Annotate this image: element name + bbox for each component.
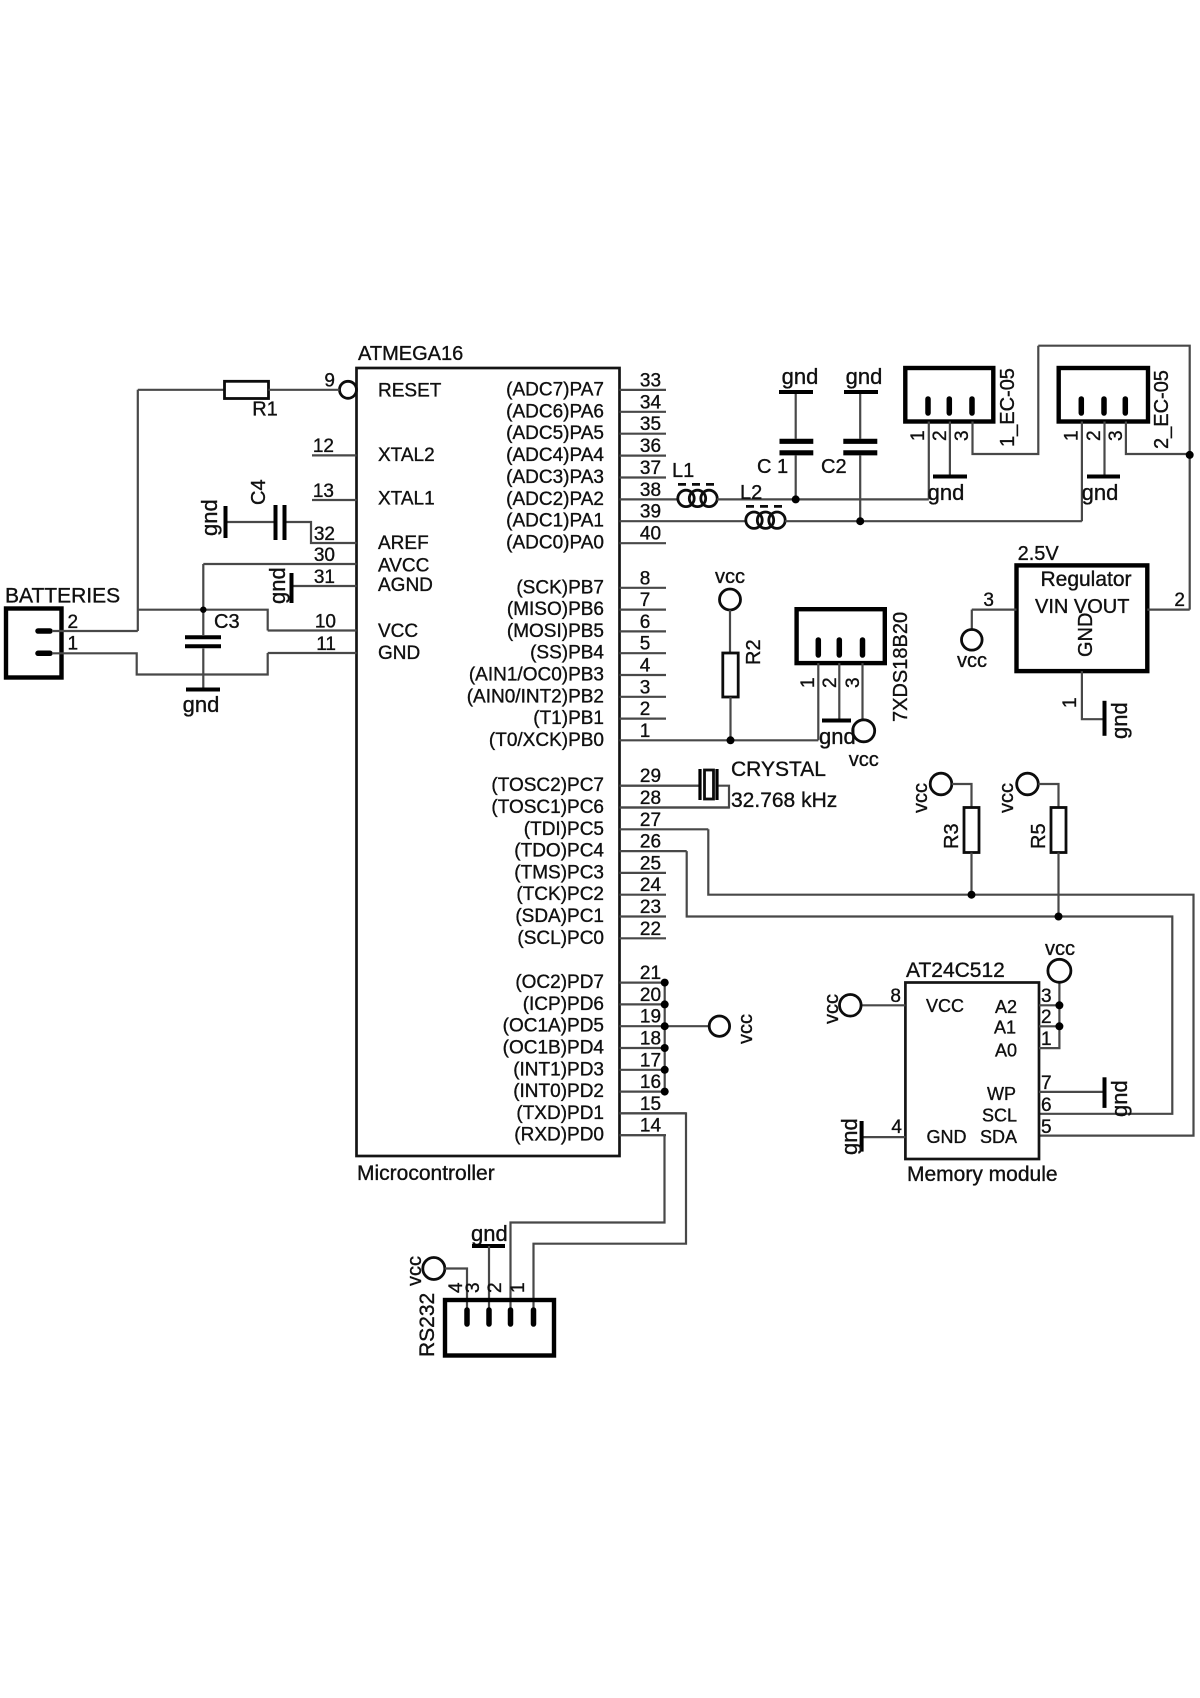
svg-text:23: 23 <box>640 897 661 918</box>
wire R2 bottom lead <box>729 697 731 740</box>
capacitor C2 bottom plate <box>843 450 877 455</box>
inductor L2 core dashes <box>746 505 782 508</box>
ground symbol at RS232 <box>472 1244 505 1248</box>
svg-text:2: 2 <box>68 612 79 633</box>
svg-text:3: 3 <box>1041 986 1052 1007</box>
svg-text:(ADC1)PA1: (ADC1)PA1 <box>506 511 604 532</box>
svg-text:AREF: AREF <box>378 533 429 554</box>
svg-text:(ADC2)PA2: (ADC2)PA2 <box>506 489 604 510</box>
svg-text:27: 27 <box>640 810 661 831</box>
U1 pin 30 stub AVCC wire <box>203 563 356 565</box>
wire vcc to RS232 pin4 <box>445 1269 467 1311</box>
svg-text:gnd: gnd <box>471 1221 508 1246</box>
wire 1_EC-05 pin3 to 2.5V rail <box>973 346 1039 454</box>
wire C1 bottom lead <box>795 455 797 499</box>
svg-text:(INT0)PD2: (INT0)PD2 <box>513 1081 604 1102</box>
svg-text:vcc: vcc <box>1045 938 1075 960</box>
ground symbol below C3 <box>186 688 220 692</box>
svg-text:(SS)PB4: (SS)PB4 <box>530 643 604 664</box>
svg-text:1: 1 <box>68 634 79 655</box>
svg-text:36: 36 <box>640 436 661 457</box>
svg-text:19: 19 <box>640 1007 661 1028</box>
node junction PD bus pin 17 <box>661 1066 669 1074</box>
svg-text:SCL: SCL <box>982 1105 1017 1125</box>
node junction A2 / vcc lead <box>1055 1001 1063 1009</box>
svg-text:GND: GND <box>378 643 420 664</box>
node junction C2 / PA1 net <box>856 517 864 525</box>
2_EC-05 pin slot 2 <box>1101 399 1107 413</box>
svg-text:22: 22 <box>640 919 661 940</box>
svg-text:13: 13 <box>313 481 334 502</box>
svg-text:gnd: gnd <box>819 724 856 749</box>
wire C2 bottom lead <box>859 455 861 521</box>
svg-text:L2: L2 <box>740 482 762 504</box>
svg-text:(MISO)PB6: (MISO)PB6 <box>507 599 604 620</box>
ground symbol at U3 WP <box>1103 1077 1107 1108</box>
wire 1_EC-05 pin2 lead to gnd <box>949 422 951 476</box>
vcc terminal below 7XDS18B20 <box>853 720 875 742</box>
wire vcc to R2 <box>729 610 731 653</box>
svg-text:gnd: gnd <box>197 499 222 536</box>
ground symbol at 7XDS18B20 <box>822 719 851 723</box>
node junction PD bus pin 16 <box>661 1088 669 1096</box>
svg-text:3: 3 <box>952 430 973 441</box>
ground symbol left of C4 <box>224 506 228 538</box>
vcc terminal at PD bus <box>709 1016 729 1036</box>
svg-text:2_EC-05: 2_EC-05 <box>1151 370 1173 449</box>
node junction R5 / PC4 net <box>1055 913 1063 921</box>
svg-text:(ADC6)PA6: (ADC6)PA6 <box>506 401 604 422</box>
node junction R2 / PB0 net <box>727 736 735 744</box>
svg-text:1: 1 <box>908 430 929 441</box>
wire 7XDS18B20 pin3 lead to vcc <box>861 663 863 720</box>
svg-text:vcc: vcc <box>821 994 843 1024</box>
node junction PD bus pin 19 <box>661 1022 669 1030</box>
wire gnd to RS232 pin3 <box>488 1246 490 1310</box>
svg-text:(OC1A)PD5: (OC1A)PD5 <box>503 1016 604 1037</box>
svg-text:33: 33 <box>640 370 661 391</box>
svg-text:AVCC: AVCC <box>378 556 429 577</box>
U1 pin 8 stub <box>620 587 667 589</box>
U1 pin 28 stub <box>620 806 730 808</box>
7XDS18B20 pin slot 2 <box>837 640 843 655</box>
U1 pin 26 stub <box>620 850 687 852</box>
svg-text:(ADC5)PA5: (ADC5)PA5 <box>506 423 604 444</box>
wire gnd to U3 pin 4 <box>863 1136 905 1138</box>
svg-text:vcc: vcc <box>996 783 1018 813</box>
svg-text:2: 2 <box>1174 590 1185 611</box>
wire VCC riser to RESET net <box>137 390 139 631</box>
inductor L1 coil <box>678 490 694 506</box>
svg-text:RS232: RS232 <box>416 1293 439 1357</box>
RS232 pin slot 3 <box>486 1310 492 1324</box>
capacitor C3 top plate <box>185 635 221 639</box>
U1 pin 3 stub <box>620 696 667 698</box>
wire 7XDS18B20 pin2 lead to gnd <box>838 663 840 719</box>
capacitor C1 top plate <box>780 439 814 444</box>
svg-text:gnd: gnd <box>846 364 883 389</box>
svg-text:2: 2 <box>485 1282 506 1293</box>
svg-text:(ADC7)PA7: (ADC7)PA7 <box>506 379 604 400</box>
wire R5 bottom lead <box>1057 853 1059 917</box>
svg-text:XTAL2: XTAL2 <box>378 445 435 466</box>
svg-text:5: 5 <box>640 634 651 655</box>
svg-text:1: 1 <box>640 721 651 742</box>
svg-text:vcc: vcc <box>735 1014 757 1044</box>
svg-text:4: 4 <box>891 1117 902 1138</box>
U1 pin 7 stub <box>620 608 667 610</box>
ground symbol above C1 <box>779 390 813 394</box>
svg-text:C3: C3 <box>214 611 240 633</box>
svg-text:(TDO)PC4: (TDO)PC4 <box>514 841 604 862</box>
wire 2_EC-05 pin2 lead to gnd <box>1103 422 1105 476</box>
1_EC-05 pin slot 3 <box>969 399 975 413</box>
vcc terminal above R2 <box>720 589 741 610</box>
svg-text:2: 2 <box>1041 1007 1052 1028</box>
svg-text:(ADC0)PA0: (ADC0)PA0 <box>506 533 604 554</box>
wire crystal to PC6 <box>620 786 729 808</box>
U1 pin 10 stub <box>268 629 357 631</box>
resistor R3 body <box>964 808 979 853</box>
svg-text:12: 12 <box>313 436 334 457</box>
U1 pin 39 stub <box>620 520 747 522</box>
vcc terminal at R3 <box>930 773 952 795</box>
capacitor C4 left plate <box>274 505 278 540</box>
U1 pin 31 stub <box>292 585 357 587</box>
U1 pin 15 stub <box>620 1112 687 1114</box>
vcc terminal at R5 <box>1017 773 1039 795</box>
ground symbol at AGND <box>290 573 294 603</box>
svg-text:1: 1 <box>1060 697 1081 708</box>
svg-text:(TCK)PC2: (TCK)PC2 <box>516 884 604 905</box>
wire C1 top lead <box>795 394 797 439</box>
svg-text:C 1: C 1 <box>757 456 788 478</box>
J1 pin slot 1 <box>38 651 50 657</box>
wire PD1 TXD to RS232 pin1 <box>534 1113 687 1310</box>
svg-text:(TMS)PC3: (TMS)PC3 <box>514 862 604 883</box>
wire U3 pin 7 WP to gnd <box>1039 1091 1103 1093</box>
svg-text:A2: A2 <box>995 997 1017 1017</box>
svg-text:5: 5 <box>1041 1117 1052 1138</box>
svg-text:R5: R5 <box>1028 823 1050 849</box>
U1 pin 34 stub <box>620 411 667 413</box>
vcc terminal above U3 A-pins <box>1048 959 1071 982</box>
svg-text:RESET: RESET <box>378 381 442 402</box>
wire R1 to RESET circle <box>269 389 340 391</box>
wire vcc to R5 <box>1038 784 1058 808</box>
ground symbol above C2 <box>844 390 878 394</box>
wire PC7 to crystal <box>620 785 699 787</box>
node junction PD bus pin 20 <box>661 1000 669 1008</box>
wire U3 pin 3 stub <box>1039 1004 1059 1006</box>
U1 pin 35 stub <box>620 433 667 435</box>
svg-text:39: 39 <box>640 502 661 523</box>
ground symbol at U3 pin 4 <box>860 1121 864 1152</box>
wire R3 bottom lead <box>970 853 972 895</box>
svg-text:1_EC-05: 1_EC-05 <box>997 368 1019 447</box>
svg-text:14: 14 <box>640 1116 662 1137</box>
svg-text:C2: C2 <box>821 456 847 478</box>
node junction PD bus pin 21 <box>661 979 669 987</box>
wire R1 left lead <box>138 389 225 391</box>
svg-text:(TOSC2)PC7: (TOSC2)PC7 <box>491 775 604 796</box>
svg-text:2: 2 <box>820 677 841 688</box>
svg-text:25: 25 <box>640 853 661 874</box>
svg-text:3: 3 <box>843 677 864 688</box>
svg-text:(SCK)PB7: (SCK)PB7 <box>516 577 604 598</box>
svg-text:Memory module: Memory module <box>907 1163 1058 1186</box>
svg-text:6: 6 <box>640 612 651 633</box>
wire gnd to C4 <box>228 521 274 523</box>
RS232 pin slot 4 <box>464 1310 470 1324</box>
resistor R2 body <box>723 653 738 697</box>
svg-text:1: 1 <box>1041 1029 1052 1050</box>
vcc terminal at U3 pin 8 <box>840 995 862 1017</box>
svg-text:15: 15 <box>640 1094 661 1115</box>
wire vcc to U3 pin 8 <box>861 1004 905 1006</box>
svg-text:gnd: gnd <box>1107 702 1132 739</box>
svg-text:(OC1B)PD4: (OC1B)PD4 <box>503 1038 605 1059</box>
svg-text:(RXD)PD0: (RXD)PD0 <box>514 1125 604 1146</box>
RS232 pin slot 2 <box>508 1310 514 1324</box>
1_EC-05 pin slot 2 <box>947 399 953 413</box>
svg-text:R3: R3 <box>941 823 963 849</box>
ground symbol at regulator <box>1103 701 1107 736</box>
wire PD0 RXD to RS232 pin2 <box>511 1135 665 1310</box>
svg-text:gnd: gnd <box>1082 480 1119 505</box>
svg-text:(ADC4)PA4: (ADC4)PA4 <box>506 445 604 466</box>
U1 pin 25 stub <box>620 872 667 874</box>
U1 pin 22 stub <box>620 937 667 939</box>
svg-text:R1: R1 <box>252 399 278 421</box>
svg-text:26: 26 <box>640 832 661 853</box>
wire 1_EC-05 pin1 lead <box>928 422 930 500</box>
U1 pin 2 stub <box>620 717 667 719</box>
svg-text:A0: A0 <box>995 1041 1017 1061</box>
svg-text:GND: GND <box>1075 613 1097 657</box>
memory module U3 body <box>905 983 1039 1160</box>
svg-text:17: 17 <box>640 1050 661 1071</box>
U1 pin 13 stub <box>312 499 357 501</box>
svg-text:BATTERIES: BATTERIES <box>5 585 120 608</box>
inductor L1 core dashes <box>678 483 714 486</box>
U1 pin 11 stub <box>268 652 357 654</box>
svg-text:vcc: vcc <box>849 749 879 771</box>
svg-text:2: 2 <box>930 430 951 441</box>
svg-text:29: 29 <box>640 766 661 787</box>
inductor L2 coil <box>746 512 762 528</box>
U1 pin 1 stub <box>620 739 819 741</box>
svg-text:3: 3 <box>640 677 651 698</box>
connector 2_EC-05 body <box>1059 368 1148 422</box>
svg-text:gnd: gnd <box>183 692 220 717</box>
capacitor C1 bottom plate <box>780 450 814 455</box>
capacitor C3 bottom plate <box>185 644 221 648</box>
svg-text:SDA: SDA <box>980 1127 1017 1147</box>
svg-text:18: 18 <box>640 1029 661 1050</box>
U1 pin 29 stub <box>620 785 699 787</box>
U1 pin 38 stub <box>620 498 679 500</box>
svg-text:9: 9 <box>324 371 335 392</box>
wire regulator VOUT stub <box>1147 608 1189 610</box>
svg-text:CRYSTAL: CRYSTAL <box>731 758 826 781</box>
U1 pin 9 RESET inversion circle <box>340 381 357 398</box>
wire vcc to R3 <box>952 784 972 808</box>
svg-text:Microcontroller: Microcontroller <box>357 1162 495 1185</box>
wire regulator GND lead <box>1082 671 1103 719</box>
U1 pin 19 stub <box>620 1025 667 1027</box>
RS232 pin slot 1 <box>531 1310 537 1324</box>
crystal X1 left plate <box>698 769 701 800</box>
U1 pin 16 stub <box>620 1090 667 1092</box>
U1 pin 24 stub <box>620 894 667 896</box>
svg-text:(TXD)PD1: (TXD)PD1 <box>516 1103 604 1124</box>
svg-text:(SDA)PC1: (SDA)PC1 <box>515 906 604 927</box>
svg-text:20: 20 <box>640 985 661 1006</box>
7XDS18B20 pin slot 1 <box>816 640 822 655</box>
svg-text:AGND: AGND <box>378 575 433 596</box>
svg-text:GND: GND <box>927 1127 967 1147</box>
wire PA1 net after L2 <box>785 520 1082 522</box>
U1 pin 36 stub <box>620 455 667 457</box>
svg-text:11: 11 <box>316 634 336 655</box>
U1 pin 21 stub <box>620 981 667 983</box>
IC U1 ATMEGA16 microcontroller body <box>357 368 620 1156</box>
svg-text:gnd: gnd <box>1107 1080 1132 1117</box>
svg-text:34: 34 <box>640 392 662 413</box>
svg-text:ATMEGA16: ATMEGA16 <box>358 343 463 365</box>
wire C3 bottom lead <box>202 649 204 688</box>
svg-text:8: 8 <box>890 986 901 1007</box>
regulator U2 body <box>1017 565 1148 671</box>
crystal X1 right plate <box>715 769 718 800</box>
U1 pin 5 stub <box>620 652 667 654</box>
svg-text:35: 35 <box>640 414 661 435</box>
U1 pin 40 stub <box>620 542 667 544</box>
wire PC5 net to SDA <box>708 829 1193 1135</box>
U1 pin 6 stub <box>620 630 667 632</box>
wire VCC horizontal run to pin10 <box>138 610 268 631</box>
svg-text:1: 1 <box>508 1282 529 1293</box>
svg-text:VCC: VCC <box>378 621 418 642</box>
svg-text:vcc: vcc <box>910 783 932 813</box>
svg-text:(ICP)PD6: (ICP)PD6 <box>523 994 604 1015</box>
connector RS232 body <box>445 1300 554 1356</box>
svg-text:2: 2 <box>640 699 651 720</box>
svg-text:L1: L1 <box>672 460 694 482</box>
svg-text:(ADC3)PA3: (ADC3)PA3 <box>506 467 604 488</box>
wire C4 to AREF pin 32 <box>287 522 357 543</box>
svg-text:XTAL1: XTAL1 <box>378 489 435 510</box>
svg-text:3: 3 <box>983 590 994 611</box>
svg-text:6: 6 <box>1041 1095 1052 1116</box>
vcc terminal at RS232 <box>423 1258 445 1280</box>
U1 pin 20 stub <box>620 1003 667 1005</box>
svg-text:30: 30 <box>314 545 335 566</box>
node junction R3 / PC5 net <box>968 891 976 899</box>
battery connector J1 body <box>6 609 62 678</box>
svg-text:(OC2)PD7: (OC2)PD7 <box>515 972 604 993</box>
wire 2.5V top rail <box>1038 346 1189 610</box>
svg-text:2.5V: 2.5V <box>1018 543 1060 565</box>
wire 2_EC-05 pin3 to 2.5V rail <box>1126 422 1190 455</box>
wire PA2 net after L1 <box>717 498 929 500</box>
svg-text:(TOSC1)PC6: (TOSC1)PC6 <box>491 797 604 818</box>
svg-text:21: 21 <box>640 963 661 984</box>
svg-text:32: 32 <box>314 524 335 545</box>
node junction VCC / C3 <box>200 607 206 613</box>
ground symbol below 1_EC-05 <box>933 475 967 479</box>
svg-text:1: 1 <box>798 677 819 688</box>
svg-text:(SCL)PC0: (SCL)PC0 <box>517 928 604 949</box>
2_EC-05 pin slot 3 <box>1123 399 1129 413</box>
U1 pin 23 stub <box>620 915 667 917</box>
svg-text:28: 28 <box>640 788 661 809</box>
wire PD pins common bus <box>664 983 666 1092</box>
wire 2_EC-05 pin1 lead <box>1081 422 1083 522</box>
svg-text:(TDI)PC5: (TDI)PC5 <box>524 819 604 840</box>
svg-text:24: 24 <box>640 875 662 896</box>
svg-text:R2: R2 <box>743 639 765 665</box>
node junction A1 / vcc lead <box>1055 1022 1063 1030</box>
node junction 2.5V rail / 2_EC-05 pin3 <box>1186 451 1194 459</box>
U1 pin 17 stub <box>620 1069 667 1071</box>
svg-text:4: 4 <box>640 656 651 677</box>
svg-text:2: 2 <box>1084 430 1105 441</box>
svg-text:(AIN0/INT2)PB2: (AIN0/INT2)PB2 <box>467 686 604 707</box>
U1 pin 18 stub <box>620 1047 667 1049</box>
wire PD bus to vcc <box>665 1025 710 1027</box>
wire AVCC drop to C3 <box>202 564 204 635</box>
svg-text:(INT1)PD3: (INT1)PD3 <box>513 1059 604 1080</box>
svg-text:10: 10 <box>315 612 336 633</box>
U1 pin 27 stub <box>620 828 709 830</box>
node junction PD bus pin 18 <box>661 1044 669 1052</box>
svg-text:31: 31 <box>314 567 335 588</box>
wire C2 top lead <box>859 394 861 439</box>
wire 7XDS18B20 pin1 lead to PB0 <box>817 663 819 740</box>
svg-text:(T1)PB1: (T1)PB1 <box>533 708 604 729</box>
U1 pin 12 stub <box>312 454 357 456</box>
U1 pin 33 stub <box>620 389 667 391</box>
svg-text:vcc: vcc <box>957 650 987 672</box>
svg-text:Regulator: Regulator <box>1040 568 1131 591</box>
svg-text:C4: C4 <box>248 479 270 505</box>
resistor R5 body <box>1051 808 1066 853</box>
svg-text:37: 37 <box>640 458 661 479</box>
svg-text:AT24C512: AT24C512 <box>906 959 1005 982</box>
svg-text:A1: A1 <box>994 1017 1016 1037</box>
ground symbol below 2_EC-05 <box>1087 475 1120 479</box>
svg-text:gnd: gnd <box>837 1118 862 1155</box>
capacitor C2 top plate <box>843 439 877 444</box>
svg-text:1: 1 <box>1062 430 1083 441</box>
J1 pin slot 2 <box>38 628 50 634</box>
svg-text:40: 40 <box>640 524 661 545</box>
wire regulator VIN stub <box>972 608 1017 610</box>
vcc terminal at regulator VIN <box>962 630 983 651</box>
2_EC-05 pin slot 1 <box>1079 399 1085 413</box>
wire vcc to VIN <box>971 610 973 630</box>
svg-text:7: 7 <box>640 590 651 611</box>
capacitor C4 right plate <box>283 505 287 540</box>
svg-text:vcc: vcc <box>715 566 745 588</box>
svg-text:32.768 kHz: 32.768 kHz <box>731 789 837 812</box>
svg-text:gnd: gnd <box>265 567 290 604</box>
svg-text:WP: WP <box>987 1084 1016 1104</box>
svg-text:8: 8 <box>640 568 651 589</box>
svg-text:(T0/XCK)PB0: (T0/XCK)PB0 <box>489 730 604 751</box>
